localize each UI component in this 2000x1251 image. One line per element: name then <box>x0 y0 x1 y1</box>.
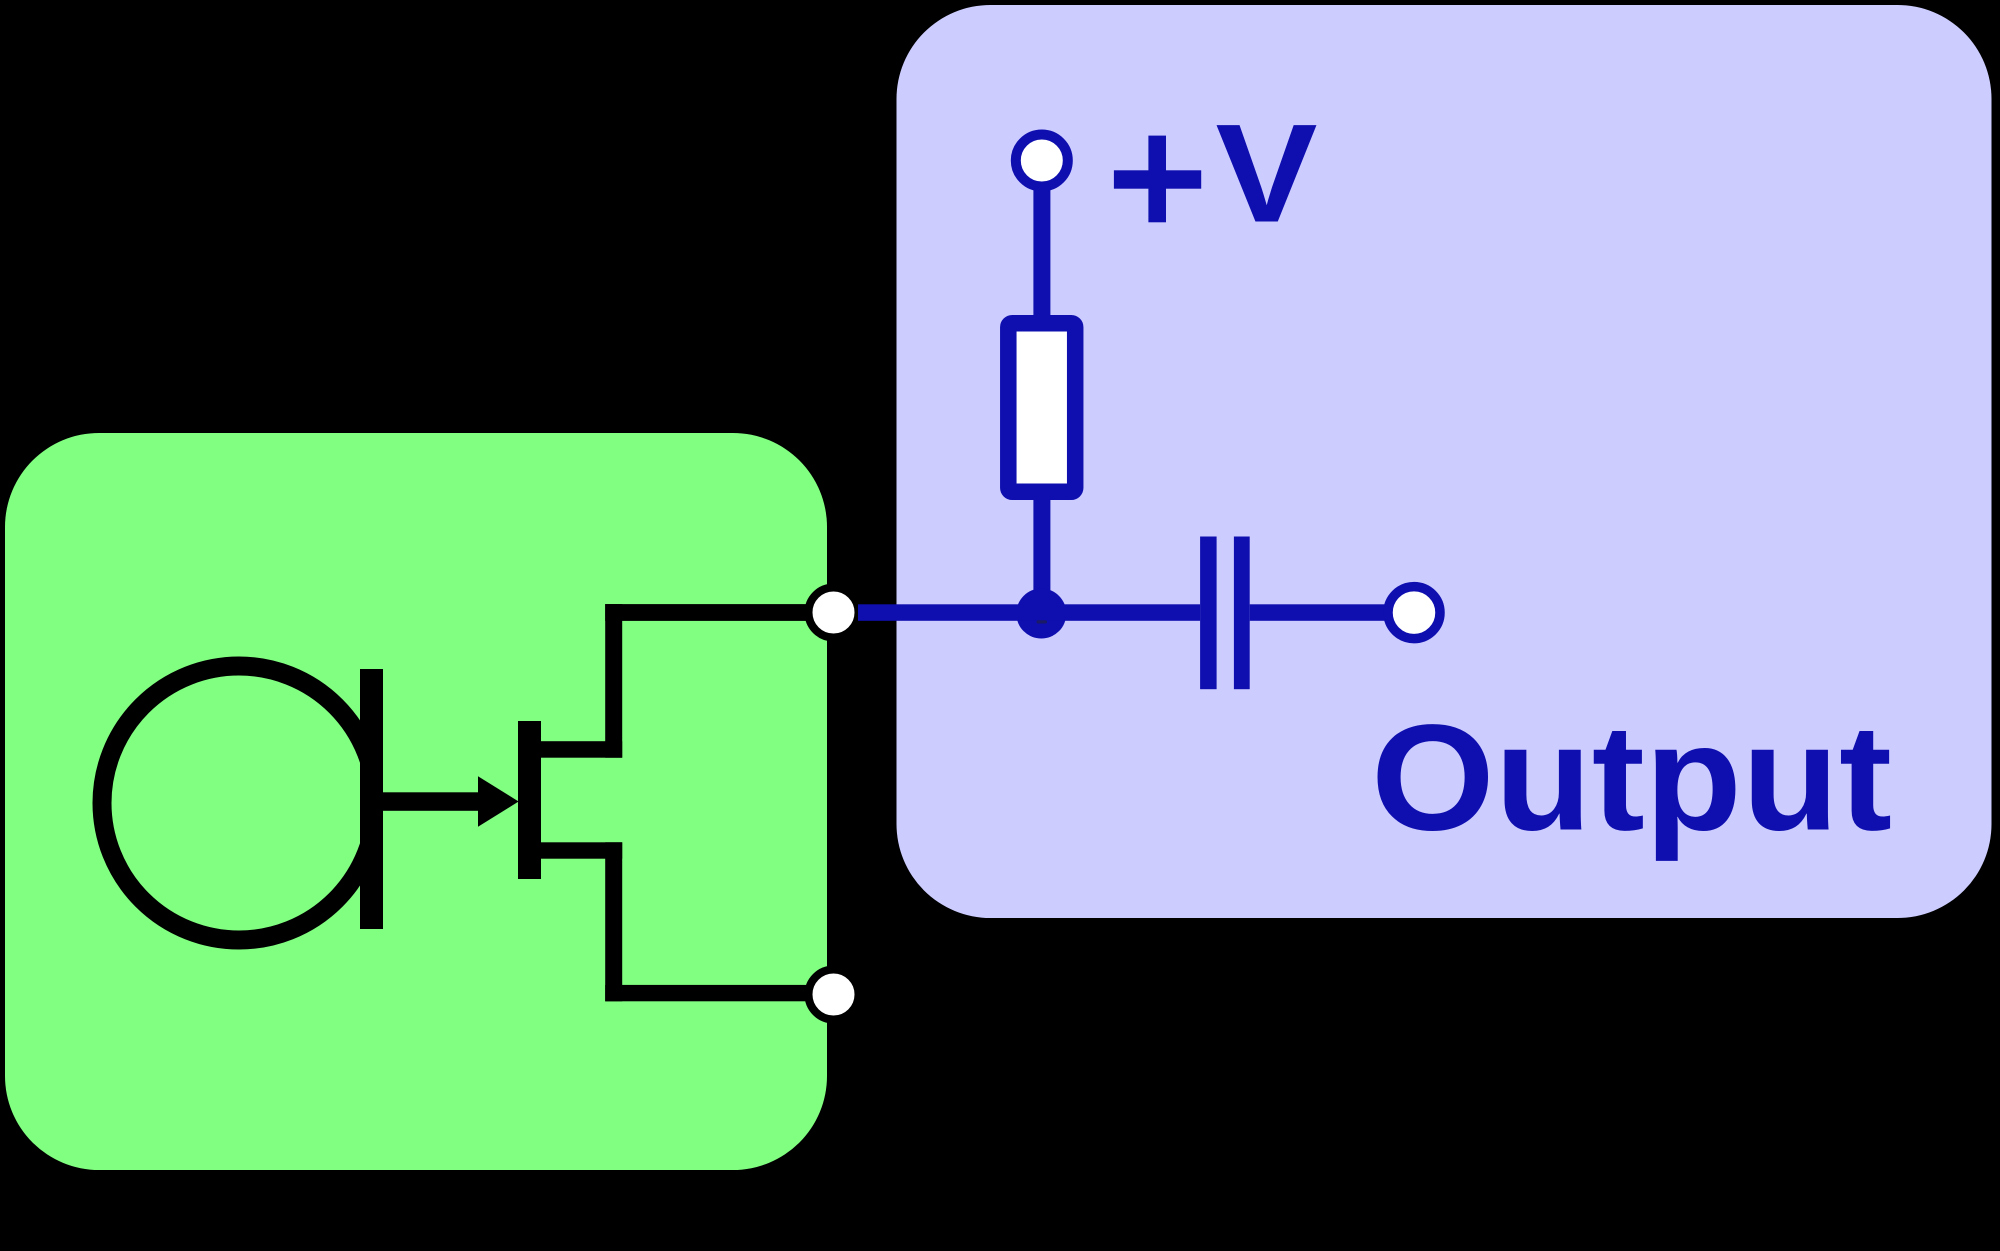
node junction dot <box>1016 589 1066 639</box>
drain lead <box>541 741 622 758</box>
source lead <box>541 842 622 858</box>
wire resistor to node <box>1033 499 1050 613</box>
junction artifact dash <box>1037 620 1048 623</box>
gate arrowhead <box>478 776 519 827</box>
label +V plus vertical stroke <box>1148 136 1166 223</box>
wire source to bottom terminal <box>605 985 833 1001</box>
wire drain vertical <box>605 604 622 758</box>
label +V plus horizontal stroke <box>1114 170 1201 188</box>
terminal pin 1 (drain output) <box>809 588 859 638</box>
gate wire <box>383 792 479 811</box>
wire capacitor to output terminal <box>1250 604 1386 621</box>
wire drain to top terminal <box>605 604 833 621</box>
capacitor C1 right plate <box>1234 537 1250 690</box>
wire +V to resistor <box>1033 186 1050 316</box>
microphone module box (green) <box>5 433 827 1170</box>
wire source vertical <box>605 842 622 1001</box>
transistor Q1 channel bar <box>518 721 541 879</box>
svg-text:Output: Output <box>1371 693 1892 862</box>
external circuit box (lavender) <box>897 5 1992 918</box>
terminal pin 2 (source/ground) <box>809 970 859 1020</box>
output terminal <box>1388 587 1440 639</box>
+V supply terminal <box>1016 135 1068 187</box>
microphone capsule MK1 <box>102 666 376 940</box>
svg-text:V: V <box>1216 95 1318 252</box>
resistor R1 <box>1008 323 1075 492</box>
capsule diaphragm plate <box>360 669 383 929</box>
capacitor C1 left plate <box>1200 537 1217 690</box>
wire terminal to capacitor <box>858 604 1200 621</box>
